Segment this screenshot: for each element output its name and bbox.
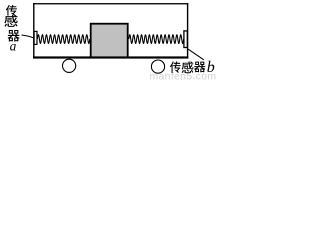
cart body top wall [33,3,188,4]
label char qi-L [8,30,20,41]
label char chuan-R [170,61,181,72]
cart body left wall [33,3,34,58]
wheel right [151,60,164,73]
label char qi-R [194,62,206,73]
block M border [90,23,129,57]
leader line to sensor a [22,35,35,38]
label char gan-L [4,15,17,27]
block M gray fill [92,25,127,57]
background [0,0,219,80]
svg-text:b: b [207,59,215,76]
label char gan-R [182,61,194,73]
spring left [37,35,89,44]
leader line to sensor b [188,49,204,60]
cart body right wall [187,3,188,58]
cart body bottom wall (floor) [33,56,188,58]
svg-text:a: a [10,39,17,54]
sensor b box [184,31,187,48]
spring right [129,35,184,44]
label char chuan-L [6,5,17,16]
sensor a box [34,31,37,44]
wheel left [63,59,76,72]
